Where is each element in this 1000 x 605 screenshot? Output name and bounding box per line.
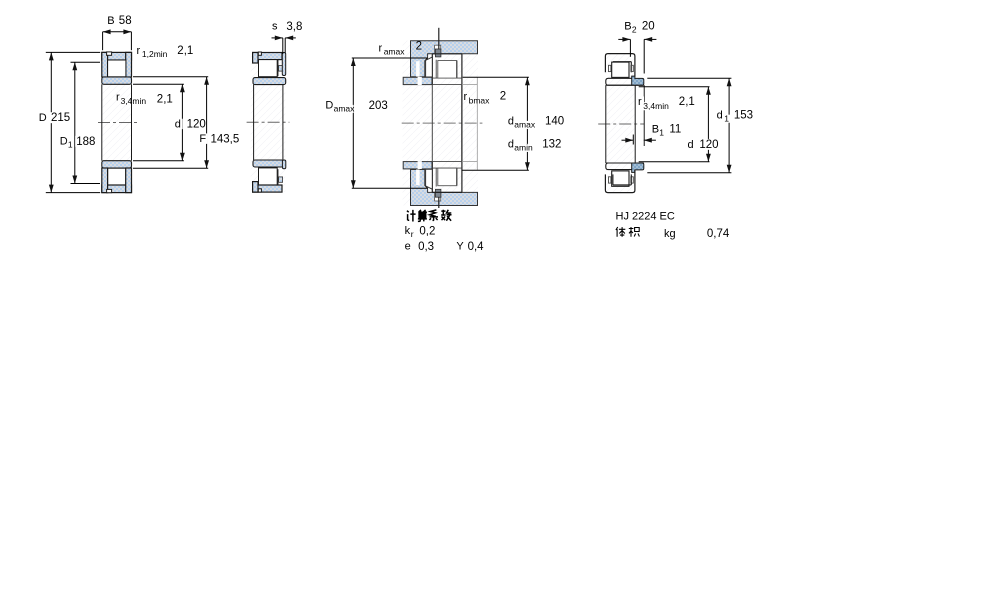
- svg-text:D: D: [60, 136, 68, 148]
- cage top fig4: [609, 65, 634, 71]
- svg-text:0,4: 0,4: [468, 241, 485, 253]
- bearing with HJ ring figure 4: [605, 54, 635, 193]
- dimension B1 11 fig4: [622, 124, 682, 145]
- svg-text:3,4min: 3,4min: [121, 96, 147, 106]
- svg-text:d: d: [717, 109, 723, 121]
- svg-text:d: d: [175, 118, 181, 130]
- outer ring bottom fig1: [102, 168, 132, 193]
- svg-text:r: r: [411, 229, 414, 239]
- inner ring top fig2: [253, 78, 286, 85]
- svg-text:B: B: [624, 21, 631, 33]
- svg-text:r: r: [379, 43, 383, 55]
- snap ring groove bottom fig3: [435, 192, 441, 201]
- roller top fig2: [259, 60, 278, 77]
- label ramax 2 fig3: [378, 41, 423, 57]
- dimension Damax 203 fig3: [324, 58, 427, 188]
- svg-text:r: r: [116, 92, 120, 104]
- label r3,4min 2,1 fig1: [116, 92, 173, 107]
- roller bottom fig3: [438, 168, 457, 186]
- angle ring HJ top fig3: [426, 57, 433, 77]
- outer ring bottom fig4: [605, 170, 635, 193]
- locating snap ring bottom fig3: [435, 189, 441, 197]
- svg-text:amax: amax: [384, 47, 406, 57]
- housing bottom fig3: [411, 170, 478, 206]
- label weight (Chinese): [616, 227, 640, 237]
- bore section fig4: [606, 85, 644, 163]
- svg-text:2: 2: [632, 24, 637, 34]
- svg-text:1: 1: [659, 128, 664, 138]
- inner ring bottom fig2: [253, 160, 283, 167]
- inner ring bore section fig1: [102, 84, 132, 160]
- svg-text:20: 20: [642, 21, 655, 33]
- svg-text:s: s: [272, 21, 278, 33]
- dimension d 120 fig1: [133, 84, 207, 160]
- svg-text:d: d: [508, 139, 514, 151]
- svg-text:2,1: 2,1: [157, 93, 173, 105]
- mounting arrangement figure 3: [403, 41, 479, 206]
- centerline fig4: [598, 123, 644, 125]
- outer ring top fig1: [102, 52, 132, 77]
- centerline fig1: [98, 122, 137, 124]
- roller top fig1: [108, 60, 126, 77]
- svg-text:120: 120: [699, 139, 718, 151]
- svg-text:120: 120: [187, 119, 206, 131]
- dimension D 215 fig1: [38, 52, 100, 192]
- svg-text:143,5: 143,5: [211, 133, 240, 145]
- svg-text:HJ 2224 EC: HJ 2224 EC: [616, 211, 675, 223]
- svg-text:11: 11: [669, 124, 681, 136]
- dimension B 58 fig1: [103, 15, 132, 50]
- roller bottom fig1: [108, 168, 126, 185]
- dimension s 3,8 fig2: [272, 21, 303, 54]
- svg-text:153: 153: [734, 109, 753, 121]
- svg-text:1,2min: 1,2min: [142, 49, 168, 59]
- svg-text:B: B: [107, 15, 114, 27]
- svg-text:D: D: [39, 112, 47, 124]
- label rbmax 2 fig3: [464, 91, 507, 106]
- svg-text:e: e: [405, 241, 411, 253]
- factor kr 0,2: [405, 225, 436, 239]
- locating snap ring top fig3: [435, 49, 441, 57]
- outer ring bottom fig2: [253, 169, 283, 192]
- dimension d 120 fig4: [639, 87, 720, 162]
- svg-text:0,3: 0,3: [418, 241, 434, 253]
- svg-text:bmax: bmax: [469, 96, 491, 106]
- snap ring leader bottom fig3: [438, 197, 440, 208]
- bearing outline fig3: [432, 54, 462, 193]
- roller top fig4: [612, 62, 629, 77]
- svg-text:2,1: 2,1: [177, 45, 193, 57]
- heading calculation factors (Chinese): [407, 210, 452, 222]
- dimension damax damin fig3: [462, 77, 565, 170]
- svg-text:215: 215: [51, 112, 70, 124]
- svg-text:Y: Y: [456, 241, 464, 253]
- svg-text:d: d: [688, 139, 694, 151]
- centerline fig3: [402, 122, 483, 124]
- snap ring groove top fig3: [435, 45, 441, 54]
- factor e 0,3: [405, 241, 435, 253]
- HJ angle ring top fig4: [632, 76, 644, 85]
- svg-text:d: d: [508, 116, 514, 128]
- bearing with angle ring side view figure 2: [251, 53, 286, 193]
- svg-text:3,4min: 3,4min: [643, 101, 669, 111]
- label r1,2min 2,1 fig1: [137, 45, 194, 59]
- svg-text:2,1: 2,1: [679, 96, 695, 108]
- svg-text:D: D: [325, 100, 333, 112]
- label r3,4min 2,1 fig4: [637, 96, 695, 111]
- shaft abutment collar top fig3: [403, 77, 432, 85]
- svg-text:0,2: 0,2: [419, 225, 435, 237]
- inner ring top fig4: [606, 78, 632, 85]
- svg-text:B: B: [652, 124, 659, 136]
- svg-text:1: 1: [68, 140, 73, 150]
- svg-text:amin: amin: [514, 143, 533, 153]
- angle ring HJ bottom fig3: [426, 169, 433, 189]
- housing top fig3: [411, 41, 478, 77]
- roller bottom fig2: [259, 168, 278, 185]
- cage bottom fig4: [609, 177, 634, 183]
- svg-text:132: 132: [542, 139, 561, 151]
- svg-text:amax: amax: [334, 104, 356, 114]
- svg-text:1: 1: [724, 113, 729, 123]
- bearing NU 2224 cross-section figure 1: [102, 52, 132, 192]
- svg-text:r: r: [464, 91, 468, 103]
- svg-text:3,8: 3,8: [286, 21, 302, 33]
- shaft abutment collar bottom fig3: [403, 161, 432, 169]
- svg-text:amax: amax: [514, 120, 536, 130]
- outer ring top fig2: [253, 52, 283, 76]
- svg-text:r: r: [137, 45, 141, 57]
- shaft seat lines fig3: [462, 77, 477, 170]
- dimension B2 20 fig4: [618, 21, 656, 146]
- angle ring top fig2: [282, 53, 285, 76]
- svg-text:188: 188: [76, 136, 95, 148]
- inner ring bottom fig4: [606, 163, 632, 170]
- dimension d1 153 fig4: [647, 78, 754, 172]
- svg-text:203: 203: [369, 100, 388, 112]
- svg-text:kg: kg: [664, 228, 676, 240]
- inner ring top fig1: [102, 77, 132, 84]
- roller bottom fig4: [612, 171, 629, 186]
- dimension F 143,5 fig1: [133, 77, 240, 169]
- svg-text:r: r: [638, 96, 642, 108]
- svg-text:2: 2: [500, 91, 506, 103]
- factor Y 0,4: [456, 241, 484, 253]
- svg-text:0,74: 0,74: [707, 228, 730, 240]
- dimension D1 188 fig1: [59, 62, 100, 183]
- inner ring bore section fig2: [254, 85, 283, 160]
- centerline fig2: [247, 121, 290, 123]
- snap ring leader top fig3: [438, 28, 440, 49]
- svg-text:2: 2: [416, 41, 422, 53]
- svg-text:140: 140: [545, 116, 564, 128]
- svg-text:k: k: [405, 225, 411, 237]
- svg-text:F: F: [199, 133, 206, 145]
- HJ angle ring bottom fig4: [632, 163, 644, 172]
- inner ring bottom fig1: [102, 161, 132, 168]
- roller top fig3: [438, 61, 457, 79]
- outer ring top fig4: [605, 54, 635, 77]
- svg-text:58: 58: [119, 15, 132, 27]
